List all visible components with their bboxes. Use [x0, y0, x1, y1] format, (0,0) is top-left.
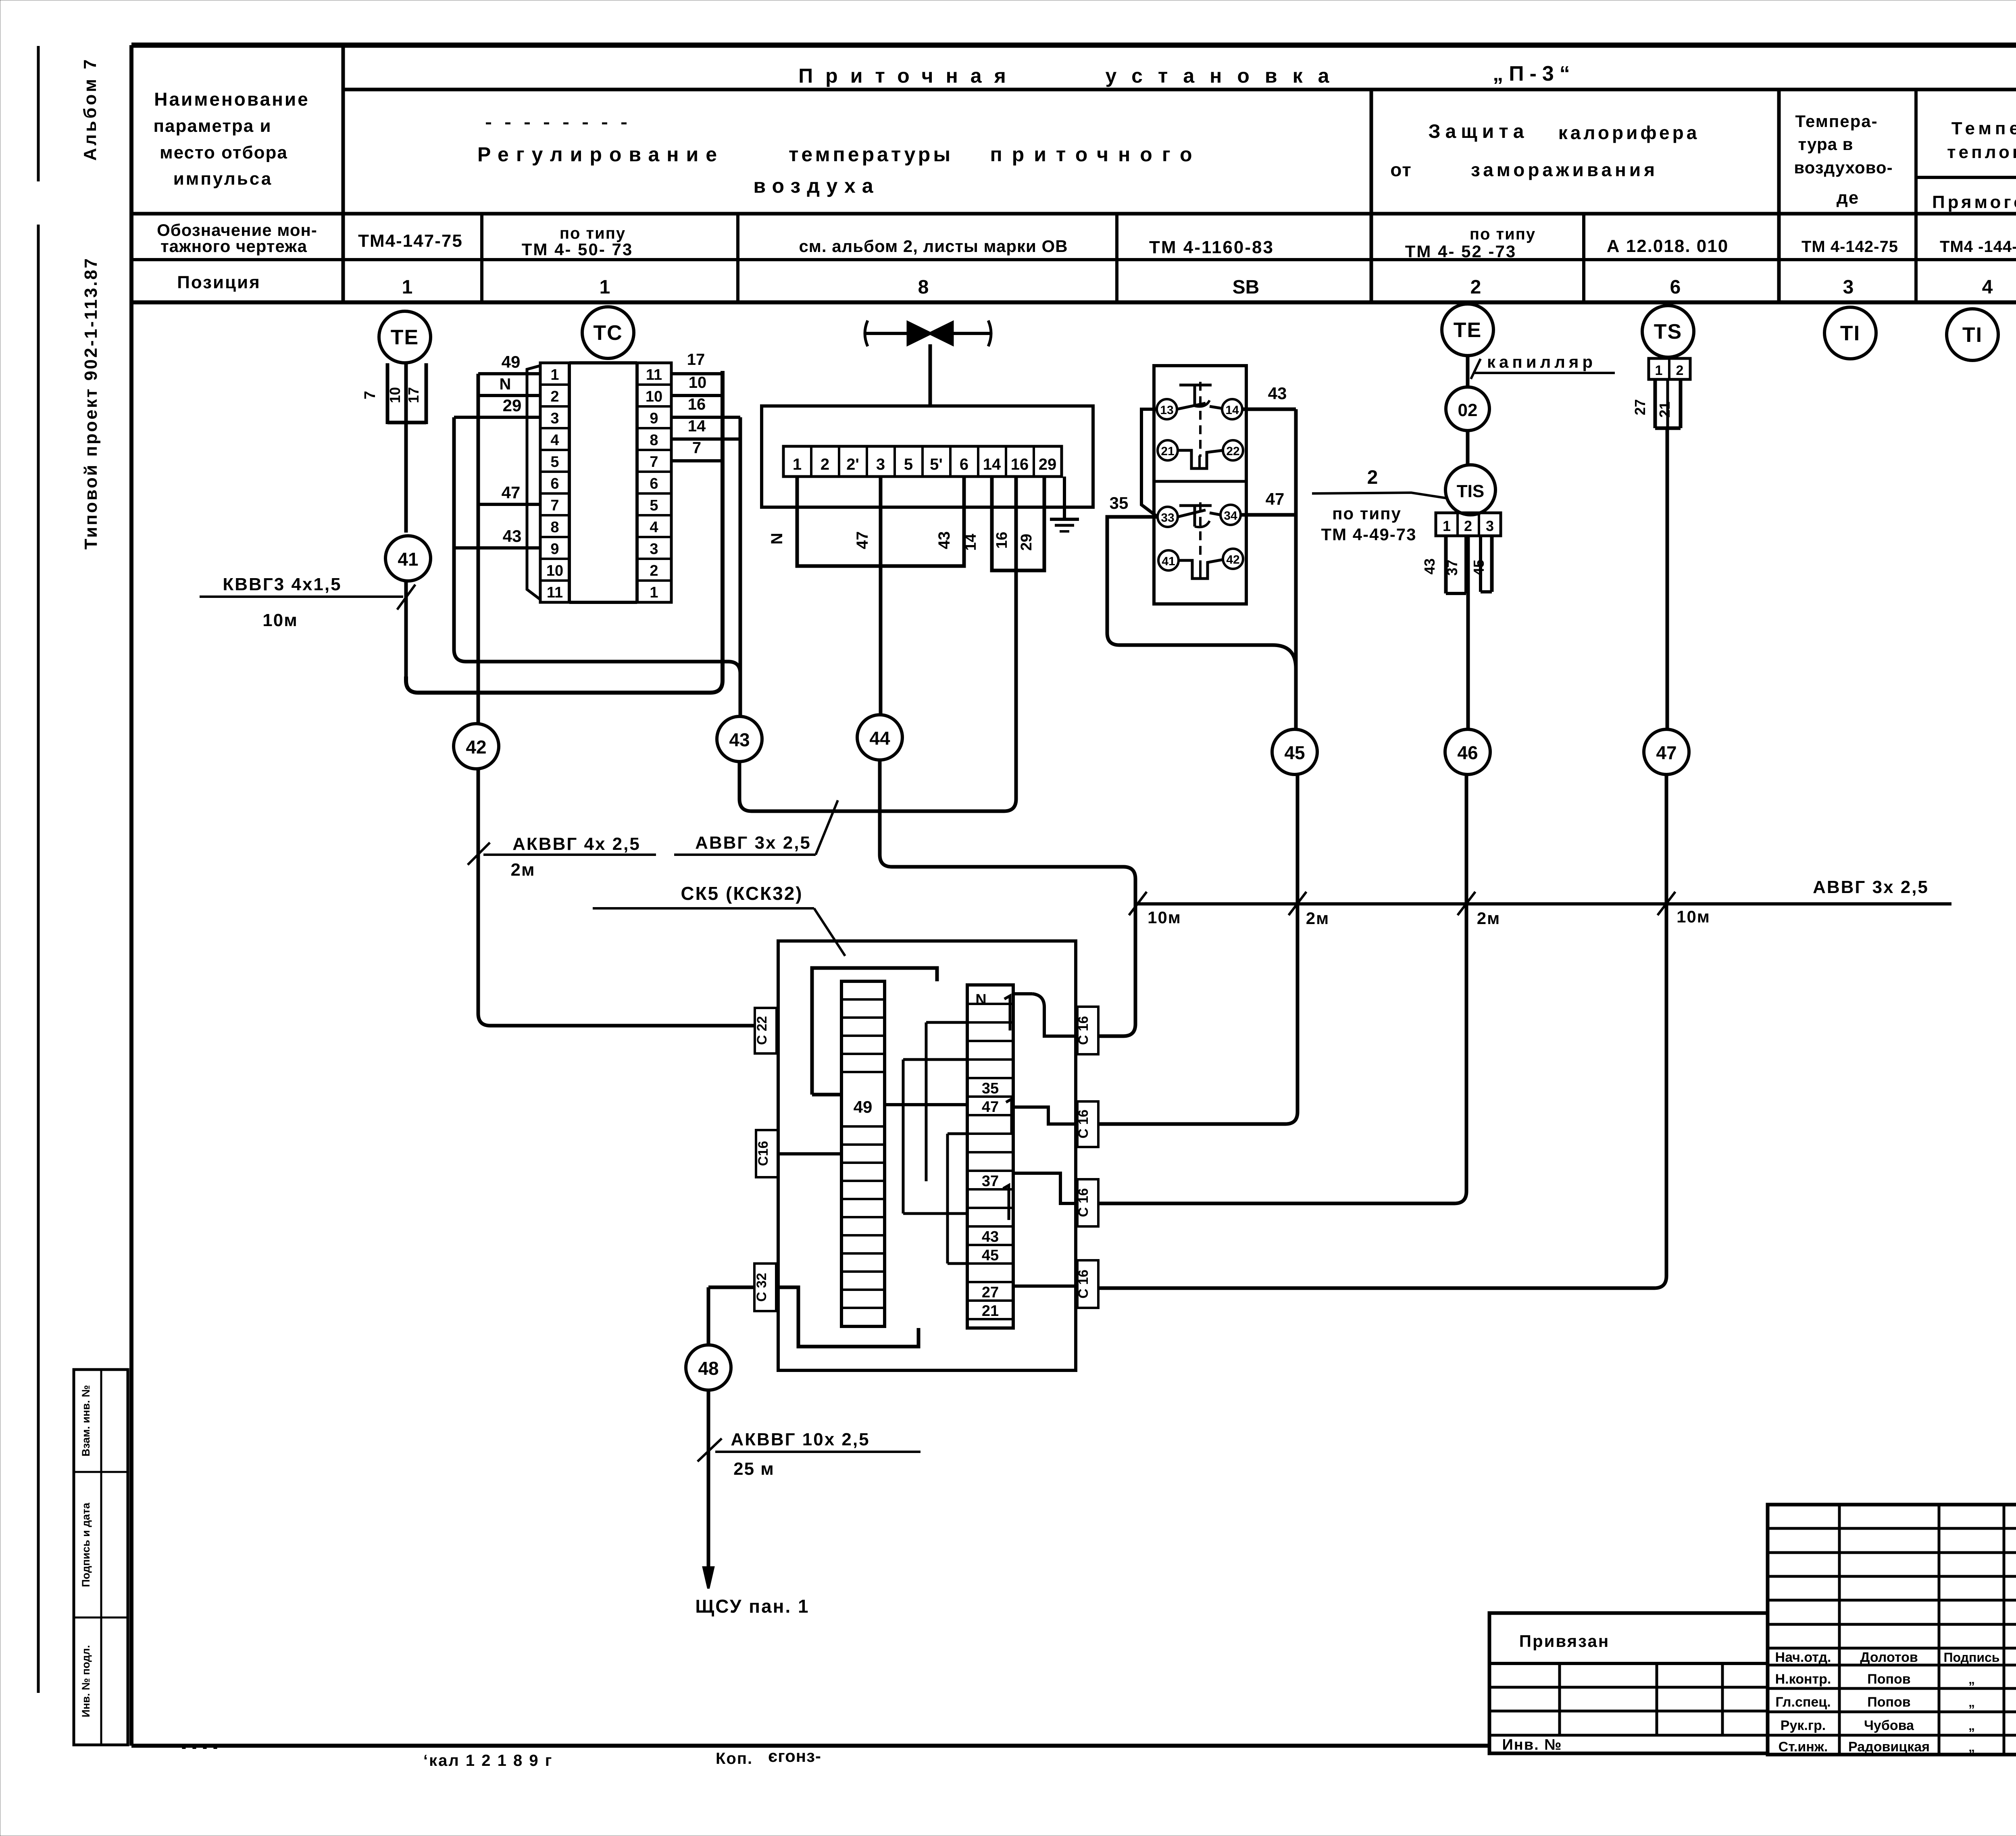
svg-text:5: 5 [650, 497, 658, 514]
svg-text:27: 27 [982, 1284, 999, 1301]
svg-text:капилляр: капилляр [1487, 352, 1596, 371]
svg-text:ТМ 4- 50- 73: ТМ 4- 50- 73 [522, 240, 633, 259]
svg-text:17: 17 [405, 387, 422, 403]
svg-text:Коп.: Коп. [716, 1750, 753, 1767]
svg-text:11: 11 [646, 366, 662, 383]
svg-text:Темпера-: Темпера- [1795, 112, 1878, 131]
svg-text:ТМ 4- 52 -73: ТМ 4- 52 -73 [1405, 242, 1516, 261]
svg-text:Инв. №: Инв. № [1502, 1736, 1562, 1753]
svg-text:1: 1 [793, 456, 802, 473]
svg-text:2: 2 [821, 456, 829, 473]
svg-text:42: 42 [1226, 553, 1239, 566]
svg-text:47: 47 [854, 531, 871, 550]
svg-text:29: 29 [1018, 534, 1035, 551]
svg-text:43: 43 [1421, 558, 1438, 575]
svg-text:„: „ [1968, 1695, 1975, 1709]
svg-text:10м: 10м [262, 610, 298, 630]
svg-text:02: 02 [1458, 400, 1478, 420]
svg-text:43: 43 [1268, 384, 1287, 403]
svg-text:6: 6 [550, 475, 559, 492]
svg-text:5: 5 [904, 456, 913, 473]
svg-text:47: 47 [502, 483, 521, 502]
svg-text:воздухово-: воздухово- [1794, 158, 1893, 177]
svg-text:48: 48 [698, 1358, 719, 1379]
svg-text:воздуха: воздуха [753, 175, 879, 197]
svg-text:1: 1 [1443, 518, 1451, 534]
svg-text:ТМ 4-1160-83: ТМ 4-1160-83 [1149, 237, 1274, 257]
svg-text:„П-3“: „П-3“ [1493, 62, 1576, 85]
svg-text:Ст.инж.: Ст.инж. [1779, 1739, 1828, 1755]
svg-text:АКВВГ 10х 2,5: АКВВГ 10х 2,5 [731, 1430, 870, 1449]
svg-text:4: 4 [650, 519, 658, 536]
svg-text:ТМ 4-142-75: ТМ 4-142-75 [1801, 238, 1898, 256]
svg-text:3: 3 [1486, 518, 1494, 534]
svg-text:1: 1 [402, 277, 413, 298]
svg-text:47: 47 [1656, 742, 1677, 763]
svg-text:2: 2 [1367, 467, 1378, 488]
svg-text:10: 10 [546, 562, 563, 579]
svg-text:TIS: TIS [1457, 481, 1484, 501]
svg-text:7: 7 [692, 439, 701, 457]
svg-text:Долотов: Долотов [1860, 1650, 1918, 1665]
svg-text:Подпись: Подпись [1944, 1650, 2000, 1665]
svg-text:6: 6 [650, 475, 658, 492]
svg-text:по типу: по типу [1470, 225, 1536, 243]
svg-text:по типу: по типу [1332, 504, 1402, 523]
svg-text:‘кал 1 2 1 8 9 г: ‘кал 1 2 1 8 9 г [423, 1752, 553, 1769]
svg-text:TS: TS [1654, 320, 1682, 343]
svg-text:Позиция: Позиция [177, 273, 261, 292]
svg-text:АКВВГ 4х 2,5: АКВВГ 4х 2,5 [512, 834, 641, 854]
svg-text:TE: TE [391, 326, 419, 349]
svg-text:Альбом 7: Альбом 7 [80, 57, 100, 161]
svg-text:3: 3 [1843, 277, 1854, 298]
svg-text:8: 8 [650, 432, 658, 449]
svg-text:37: 37 [1444, 560, 1460, 576]
svg-text:установка: установка [1106, 65, 1345, 87]
svg-text:„: „ [1968, 1718, 1975, 1733]
svg-text:ТМ4 -144-75: ТМ4 -144-75 [1940, 238, 2016, 256]
svg-text:6: 6 [1670, 277, 1681, 298]
svg-text:приточного: приточного [990, 143, 1202, 166]
svg-text:С 32: С 32 [754, 1273, 769, 1302]
svg-text:С 16: С 16 [1076, 1110, 1091, 1139]
svg-text:41: 41 [1162, 555, 1175, 568]
svg-text:29: 29 [503, 396, 522, 415]
svg-text:16: 16 [993, 532, 1010, 549]
svg-text:С 16: С 16 [1076, 1270, 1091, 1299]
svg-text:11: 11 [547, 584, 563, 601]
svg-text:1: 1 [550, 366, 559, 383]
svg-text:TI: TI [1840, 322, 1860, 345]
svg-text:ТМ 4-49-73: ТМ 4-49-73 [1321, 525, 1416, 544]
svg-text:47: 47 [1266, 489, 1285, 508]
svg-text:5: 5 [550, 454, 559, 470]
svg-text:43: 43 [503, 527, 522, 545]
svg-text:єгонз-: єгонз- [768, 1746, 821, 1765]
svg-text:45: 45 [1470, 560, 1487, 576]
svg-text:С 16: С 16 [1076, 1188, 1091, 1217]
svg-text:3: 3 [550, 410, 559, 427]
svg-text:место отбора: место отбора [160, 143, 288, 162]
svg-text:10м: 10м [1148, 908, 1181, 927]
svg-text:13: 13 [1160, 404, 1173, 417]
svg-text:10: 10 [689, 374, 707, 391]
svg-text:42: 42 [466, 737, 486, 758]
svg-text:7: 7 [650, 454, 658, 470]
svg-text:10: 10 [646, 388, 662, 405]
svg-text:Наименование: Наименование [154, 89, 309, 110]
svg-text:Взам. инв. №: Взам. инв. № [80, 1385, 92, 1456]
svg-text:Гл.спец.: Гл.спец. [1775, 1694, 1831, 1710]
svg-text:49: 49 [854, 1097, 873, 1116]
svg-text:„: „ [1968, 1672, 1975, 1686]
svg-text:де: де [1837, 188, 1859, 208]
svg-text:6: 6 [960, 456, 968, 473]
svg-text:41: 41 [398, 549, 418, 570]
svg-text:14: 14 [1225, 404, 1239, 417]
svg-text:см. альбом 2, листы марки О: см. альбом 2, листы марки ОВ [799, 237, 1068, 256]
svg-text:параметра и: параметра и [153, 116, 271, 136]
svg-text:16: 16 [1011, 456, 1029, 473]
svg-text:Приточная: Приточная [798, 65, 1018, 87]
svg-text:8: 8 [918, 277, 929, 298]
svg-text:температуры: температуры [789, 143, 953, 166]
svg-text:Регулирование: Регулирование [477, 143, 724, 166]
svg-text:43: 43 [935, 531, 953, 550]
svg-text:импульса: импульса [173, 169, 273, 189]
svg-text:10: 10 [387, 387, 403, 403]
svg-text:от: от [1390, 159, 1412, 180]
svg-text:теплоносителя: теплоносителя [1947, 142, 2016, 162]
svg-text:Н.контр.: Н.контр. [1775, 1672, 1831, 1687]
svg-text:С 16: С 16 [1076, 1016, 1091, 1045]
svg-text:Инв. № подл.: Инв. № подл. [80, 1645, 92, 1717]
svg-text:2: 2 [1470, 277, 1481, 298]
svg-text:14: 14 [688, 417, 706, 435]
svg-text:1: 1 [600, 277, 610, 298]
svg-text:47: 47 [982, 1099, 999, 1116]
svg-text:7: 7 [550, 497, 559, 514]
svg-text:21: 21 [1161, 445, 1174, 458]
svg-text:35: 35 [1110, 493, 1129, 512]
svg-text:46: 46 [1457, 742, 1478, 763]
svg-text:TI: TI [1962, 323, 1983, 347]
svg-text:ЩСУ пан. 1: ЩСУ пан. 1 [695, 1596, 809, 1617]
svg-text:АВВГ 3х 2,5: АВВГ 3х 2,5 [1813, 877, 1929, 897]
svg-text:29: 29 [1039, 456, 1057, 473]
svg-text:Чубова: Чубова [1864, 1718, 1914, 1733]
svg-text:14: 14 [983, 456, 1001, 473]
svg-text:А 12.018. 010: А 12.018. 010 [1607, 236, 1729, 256]
svg-text:2м: 2м [510, 860, 535, 880]
svg-text:„: „ [1968, 1740, 1975, 1754]
svg-text:37: 37 [982, 1173, 999, 1190]
svg-text:2: 2 [650, 562, 658, 579]
svg-text:2: 2 [1464, 518, 1472, 534]
svg-text:27: 27 [1632, 399, 1648, 415]
svg-text:45: 45 [1284, 742, 1305, 763]
svg-text:21: 21 [1656, 402, 1673, 418]
svg-text:Привязан: Привязан [1519, 1632, 1610, 1651]
svg-text:калорифера: калорифера [1558, 122, 1700, 143]
svg-text:3: 3 [876, 456, 885, 473]
svg-text:Рук.гр.: Рук.гр. [1781, 1718, 1826, 1733]
svg-text:N: N [975, 991, 986, 1008]
svg-text:3: 3 [650, 541, 658, 558]
svg-text:2': 2' [846, 456, 859, 473]
svg-text:16: 16 [688, 396, 706, 413]
svg-text:45: 45 [982, 1247, 999, 1264]
svg-text:22: 22 [1226, 445, 1239, 458]
svg-text:21: 21 [982, 1303, 999, 1320]
svg-text:25 м: 25 м [733, 1459, 775, 1479]
svg-text:Попов: Попов [1867, 1672, 1910, 1687]
svg-text:КВВГ3 4х1,5: КВВГ3 4х1,5 [223, 575, 342, 594]
svg-text:тажного чертежа: тажного чертежа [160, 237, 307, 256]
svg-text:2: 2 [550, 388, 559, 405]
svg-text:Радовицкая: Радовицкая [1848, 1739, 1930, 1755]
svg-text:СК5 (КСК32): СК5 (КСК32) [681, 883, 803, 904]
svg-text:35: 35 [982, 1080, 999, 1097]
svg-text:тура в: тура в [1798, 135, 1854, 154]
svg-text:1: 1 [1655, 363, 1663, 378]
svg-text:4: 4 [1982, 277, 1993, 298]
svg-text:Температура: Температура [1951, 119, 2016, 138]
svg-text:9: 9 [650, 410, 658, 427]
svg-text:43: 43 [982, 1228, 999, 1245]
svg-text:7: 7 [362, 391, 379, 399]
svg-text:N: N [500, 375, 511, 393]
svg-text:С16: С16 [756, 1141, 771, 1166]
svg-text:1: 1 [650, 584, 658, 601]
svg-text:TE: TE [1454, 318, 1482, 342]
svg-text:44: 44 [869, 728, 890, 749]
svg-text:Попов: Попов [1867, 1694, 1910, 1710]
svg-text:Нач.отд.: Нач.отд. [1775, 1650, 1831, 1665]
svg-text:АВВГ 3х 2,5: АВВГ 3х 2,5 [695, 833, 811, 853]
svg-text:33: 33 [1161, 511, 1174, 525]
svg-text:Подпись и дата: Подпись и дата [80, 1502, 92, 1587]
svg-text:Защита: Защита [1429, 121, 1529, 142]
svg-text:2м: 2м [1306, 909, 1329, 928]
svg-text:4: 4 [550, 432, 559, 449]
svg-text:17: 17 [687, 351, 705, 368]
svg-text:С 22: С 22 [754, 1016, 770, 1045]
svg-text:14: 14 [962, 534, 979, 551]
svg-text:ТМ4-147-75: ТМ4-147-75 [358, 231, 463, 251]
svg-text:34: 34 [1224, 509, 1237, 522]
svg-text:49: 49 [502, 352, 521, 371]
svg-text:2: 2 [1676, 363, 1684, 378]
svg-text:N: N [768, 533, 786, 545]
svg-text:5': 5' [930, 456, 943, 473]
svg-text:замораживания: замораживания [1471, 159, 1658, 180]
svg-text:- - - -: - - - - [181, 1738, 219, 1755]
svg-text:Типовой проект 902-1-113.87: Типовой проект 902-1-113.87 [81, 257, 101, 550]
svg-text:10м: 10м [1677, 907, 1710, 926]
svg-text:9: 9 [550, 541, 559, 558]
svg-text:Прямого: Прямого [1932, 192, 2016, 212]
svg-text:8: 8 [550, 519, 559, 536]
svg-text:TC: TC [593, 321, 623, 345]
svg-text:2м: 2м [1477, 909, 1500, 928]
svg-text:SB: SB [1233, 277, 1260, 298]
svg-text:43: 43 [729, 729, 750, 750]
